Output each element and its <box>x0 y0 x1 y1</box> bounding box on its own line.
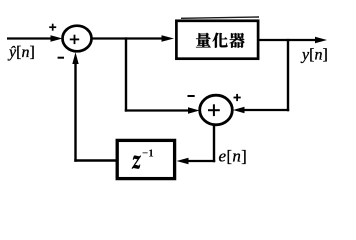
plus sign at A1 left input <box>49 24 56 31</box>
wire tap left to adder A2 <box>244 109 289 111</box>
arrow into adder A1 bottom <box>72 52 78 64</box>
minus sign at A1 bottom input <box>58 57 64 59</box>
arrow into adder A1 left <box>51 35 63 41</box>
label z^-1 <box>132 156 141 169</box>
arrow into quantizer <box>162 35 175 41</box>
wire adder A1 to quantizer <box>92 37 164 39</box>
svg-text:y[n]: y[n] <box>300 47 328 64</box>
label 量化器 (quantizer) <box>196 33 244 48</box>
wire tap down from y[n] line <box>287 39 289 111</box>
wire e[n] left to z-1 box <box>188 160 215 162</box>
wire input ŷ[n] to adder A1 <box>7 37 53 39</box>
svg-text:e[n]: e[n] <box>219 147 248 166</box>
wire tap right to adder A2 <box>125 109 189 111</box>
quantizer box U1 <box>181 17 259 18</box>
svg-text:−1: −1 <box>142 148 154 160</box>
wire quantizer to output y[n] <box>259 39 317 41</box>
arrow into adder A2 right <box>233 107 245 113</box>
minus sign at A2 left input <box>188 95 195 97</box>
adder A1 (summing junction) <box>63 26 92 52</box>
delay box z^-1 <box>117 140 174 178</box>
wire feedback riser up to adder A1 <box>74 63 76 162</box>
arrow into adder A2 left <box>188 107 200 113</box>
svg-text:ŷ[n]: ŷ[n] <box>7 44 35 61</box>
arrow into z-1 box right <box>177 158 189 164</box>
plus sign at A2 right input <box>234 94 241 101</box>
wire z-1 box left to feedback riser <box>74 159 116 161</box>
arrowhead output y[n] <box>315 37 327 43</box>
wire adder A2 output down (e[n]) <box>213 125 215 163</box>
plus sign inside adder A2 <box>208 104 220 116</box>
plus sign inside adder A1 <box>70 35 79 44</box>
adder A2 (summing junction) <box>200 95 233 125</box>
wire tap down from A1 output <box>125 37 127 111</box>
